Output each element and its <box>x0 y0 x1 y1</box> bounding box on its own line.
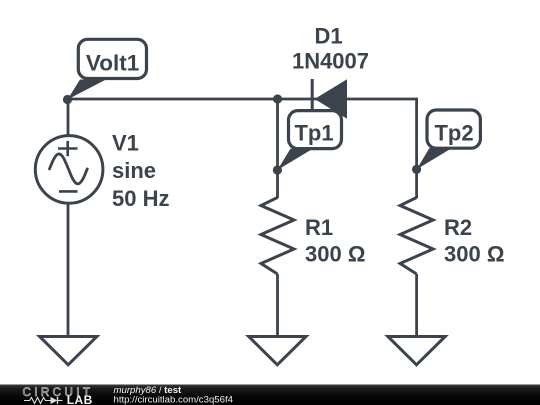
svg-text:V1: V1 <box>112 130 139 155</box>
CircuitLab logo resistor-diode line <box>24 397 63 404</box>
wire R1 bottom to ground <box>276 274 279 337</box>
ground R2 <box>388 337 445 365</box>
svg-text:300 Ω: 300 Ω <box>444 242 504 267</box>
svg-text:LAB: LAB <box>67 393 93 405</box>
node Volt1 <box>63 95 72 104</box>
CircuitLab logo CIRCUIT <box>23 386 94 399</box>
wire R2 bottom to ground <box>415 274 418 337</box>
footer url <box>114 395 234 405</box>
label R2 value <box>444 215 504 267</box>
node Tp2 <box>412 165 421 174</box>
footer bar <box>0 385 540 405</box>
svg-text:Tp1: Tp1 <box>294 121 333 146</box>
flag Volt1 <box>68 39 147 99</box>
CircuitLab logo LAB <box>67 393 93 405</box>
resistor R1 <box>261 198 294 275</box>
wire top horizontal node A to R2 branch <box>68 98 418 101</box>
wire R2 branch vertical <box>415 99 418 198</box>
flag Tp2 <box>417 110 481 169</box>
diode D1 <box>312 79 347 119</box>
svg-text:sine: sine <box>112 158 156 183</box>
voltage source V1 <box>35 136 103 204</box>
svg-text:http://circuitlab.com/c3q56f4: http://circuitlab.com/c3q56f4 <box>114 395 234 405</box>
label V1 value <box>112 130 169 211</box>
ground V1 <box>40 337 97 365</box>
node Tp1 <box>273 165 282 174</box>
svg-text:R1: R1 <box>305 215 333 240</box>
wire R1 branch vertical <box>276 99 279 198</box>
svg-text:300 Ω: 300 Ω <box>305 242 365 267</box>
svg-text:R2: R2 <box>444 215 472 240</box>
svg-text:1N4007: 1N4007 <box>292 49 369 74</box>
svg-text:D1: D1 <box>314 24 342 49</box>
wire V1 top vertical <box>67 99 70 136</box>
footer text murphy86 / test <box>114 385 183 396</box>
svg-text:Tp2: Tp2 <box>434 121 473 146</box>
resistor R2 <box>400 198 433 275</box>
svg-text:50 Hz: 50 Hz <box>112 186 169 211</box>
node junction dot top of R1 <box>273 94 282 103</box>
label D1 <box>292 24 369 74</box>
svg-text:Volt1: Volt1 <box>86 50 139 75</box>
wire V1 bottom to ground <box>67 203 70 337</box>
flag Tp1 <box>277 111 341 170</box>
label R1 value <box>305 215 365 267</box>
ground R1 <box>249 337 306 365</box>
